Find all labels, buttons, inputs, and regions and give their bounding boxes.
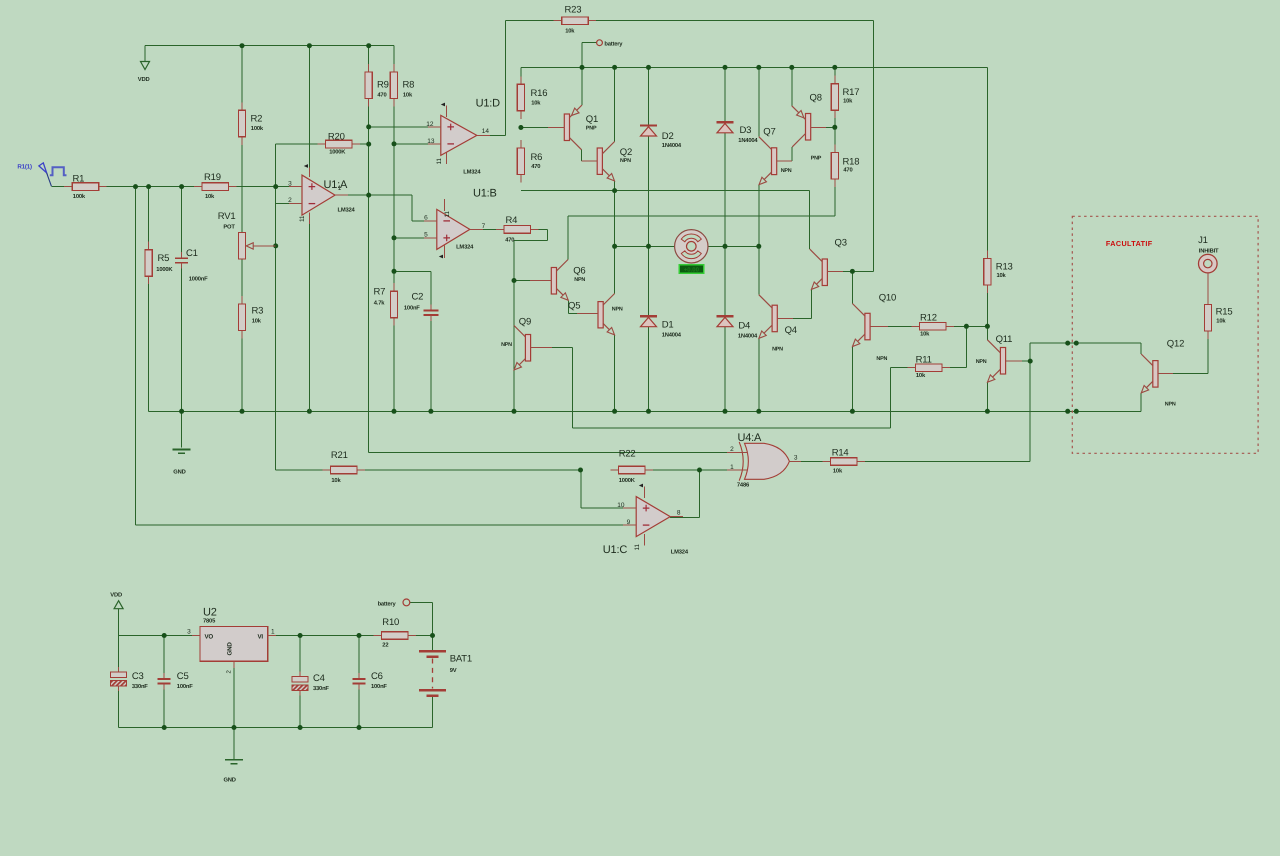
svg-text:LM324: LM324 [671, 549, 689, 556]
svg-text:2: 2 [730, 446, 734, 453]
svg-text:C1: C1 [186, 248, 198, 259]
wire VDD stub bottom block [118, 609, 120, 636]
wire U1:B pin5 [394, 237, 437, 239]
svg-text:R2: R2 [251, 114, 263, 125]
resistor R22 [611, 469, 619, 471]
svg-text:FACULTATIF: FACULTATIF [1106, 239, 1153, 248]
wire R18 to Q6 collector line [568, 215, 835, 217]
connector battery bottom [403, 599, 410, 606]
wire Q6 base [514, 280, 548, 282]
transistor Q7 NPN mirrored [772, 148, 777, 175]
svg-text:D2: D2 [662, 131, 674, 142]
svg-text:LM324: LM324 [456, 244, 474, 251]
wire R10 to battery [408, 635, 433, 637]
svg-text:1N4004: 1N4004 [738, 137, 758, 144]
svg-text:C3: C3 [132, 671, 144, 682]
wire Q3 base net [831, 270, 874, 272]
svg-text:7805: 7805 [203, 617, 216, 624]
wire C4 column [299, 636, 301, 677]
svg-text:J1: J1 [1198, 235, 1208, 246]
svg-text:5: 5 [424, 232, 428, 239]
junction dot R16 R6 [518, 125, 523, 130]
svg-text:GND: GND [226, 642, 233, 656]
diode D4 [717, 315, 734, 317]
svg-text:R18: R18 [843, 157, 860, 168]
svg-text:BAT1: BAT1 [450, 654, 472, 665]
svg-text:R16: R16 [531, 88, 548, 99]
svg-text:PNP: PNP [586, 126, 597, 132]
wire XOR output to R14 [789, 461, 830, 463]
power flag VDD top [141, 62, 150, 70]
wire U1:C output [670, 516, 699, 518]
resistor R8 [393, 64, 395, 72]
resistor R3 [241, 296, 243, 304]
wire supply bottom line [118, 686, 120, 727]
svg-text:470: 470 [377, 91, 386, 98]
resistor R13 [986, 251, 988, 259]
svg-text:D3: D3 [740, 125, 752, 136]
wire R2 RV1 R3 column [241, 137, 243, 233]
svg-text:U1:D: U1:D [476, 98, 501, 110]
svg-text:LM324: LM324 [463, 169, 481, 176]
svg-text:10k: 10k [916, 372, 926, 379]
wire Q6 emitter to Q5 base [567, 300, 569, 313]
svg-text:11: 11 [634, 544, 641, 551]
capacitor C5 [163, 673, 165, 679]
svg-text:NPN: NPN [1165, 401, 1176, 407]
svg-text:9V: 9V [450, 667, 457, 674]
transistor Q1 PNP [564, 114, 569, 141]
capacitor C1 [181, 252, 183, 258]
svg-text:Q10: Q10 [879, 293, 896, 304]
svg-text:R22: R22 [619, 449, 636, 460]
svg-text:1000K: 1000K [619, 477, 636, 484]
resistor R20 [318, 143, 326, 145]
resistor R4 [496, 228, 504, 230]
svg-text:NPN: NPN [876, 356, 887, 362]
svg-text:10k: 10k [403, 91, 413, 98]
wire C6 column [358, 636, 360, 680]
wire C1 branch [181, 187, 183, 259]
svg-text:7: 7 [482, 223, 486, 230]
svg-text:R8: R8 [403, 80, 415, 91]
ground symbol middle [173, 449, 191, 451]
wire Q11 base net to Q12 collector [1008, 360, 1030, 362]
svg-text:10k: 10k [843, 98, 853, 105]
connector J1 INHIBIT [1199, 254, 1218, 273]
wire R11 left [890, 367, 915, 369]
wire bottom ground rail [149, 410, 1142, 412]
junction dots VDD rail [240, 43, 245, 48]
transistor Q3 NPN mirrored [822, 259, 827, 286]
resistor R6 [520, 140, 522, 148]
junction dots battery rail [580, 65, 585, 70]
svg-text:4.7k: 4.7k [374, 300, 385, 307]
svg-text:100k: 100k [73, 193, 86, 200]
svg-text:Q12: Q12 [1167, 339, 1184, 350]
junction dots ground rail [179, 409, 184, 414]
wire Q7 emitter stub [758, 185, 760, 247]
svg-text:R9: R9 [377, 80, 389, 91]
svg-text:R21: R21 [331, 450, 348, 461]
svg-text:R10: R10 [382, 617, 399, 628]
xor gate U4:A 7486 [745, 443, 790, 479]
svg-text:D1: D1 [662, 320, 674, 331]
svg-text:100nF: 100nF [404, 304, 420, 311]
svg-text:10k: 10k [331, 477, 341, 484]
svg-text:14: 14 [482, 128, 490, 135]
junction dots R8 column [392, 141, 397, 146]
resistor R1 [64, 186, 72, 188]
svg-text:R5: R5 [158, 253, 170, 264]
resistor R11 [907, 367, 915, 369]
resistor R23 [554, 20, 562, 22]
svg-text:R19: R19 [204, 172, 221, 183]
wire U2 input line [268, 635, 382, 637]
resistor R21 [322, 469, 330, 471]
diode D2 [640, 124, 657, 126]
wire R14 to Q11 base [857, 461, 1030, 463]
svg-text:INHIBIT: INHIBIT [1199, 248, 1219, 254]
wire input to U1:C pin9 [135, 187, 137, 525]
svg-text:22: 22 [382, 641, 388, 648]
wire Q11 collector emitter stubs [986, 326, 988, 340]
svg-text:1000nF: 1000nF [189, 276, 208, 283]
resistor R12 [912, 325, 920, 327]
junction dots input line [133, 184, 138, 189]
svg-text:Q9: Q9 [519, 317, 531, 328]
junction dots R12 R13 [964, 324, 969, 329]
svg-text:470: 470 [843, 167, 852, 174]
wire Q12 base to R15 [1161, 373, 1208, 375]
svg-text:10k: 10k [833, 468, 843, 475]
connector battery top [597, 40, 603, 46]
transistor Q10 NPN mirrored [865, 313, 870, 340]
wire Q3 emitter to Q4 base [810, 290, 812, 319]
resistor R15 [1207, 297, 1209, 305]
junction dot Q2 emitter [612, 188, 617, 193]
wire U1:D pin13 [394, 143, 441, 145]
wire R8 R7 column [393, 97, 395, 144]
svg-text:C4: C4 [313, 673, 325, 684]
svg-text:NPN: NPN [501, 342, 512, 348]
junction dots output column [366, 124, 371, 129]
diode D3 [717, 121, 734, 123]
svg-text:LM324: LM324 [338, 207, 356, 214]
svg-text:1000K: 1000K [156, 266, 173, 273]
wire Q9 base loop to R11 [534, 347, 573, 349]
wire R13 bottom [986, 285, 988, 326]
svg-text:10: 10 [617, 502, 625, 509]
svg-text:Q2: Q2 [620, 147, 632, 158]
capacitor C3 electrolytic [118, 667, 120, 672]
wire R20 feedback column [275, 144, 277, 470]
wire R5 branch [148, 187, 150, 250]
op-amp U1:B LM324 [437, 209, 470, 249]
svg-text:NPN: NPN [781, 168, 792, 174]
junction dot Q11 base [1028, 359, 1033, 364]
svg-text:1N4004: 1N4004 [662, 331, 682, 338]
transistor Q2 NPN [597, 148, 602, 174]
svg-text:R11: R11 [916, 354, 932, 365]
svg-text:U4:A: U4:A [738, 432, 763, 444]
svg-text:C2: C2 [412, 292, 424, 303]
wire U2 ground pin [233, 661, 235, 727]
regulator U2 7805 [200, 627, 268, 662]
motor speed display [679, 265, 703, 274]
svg-text:R7: R7 [374, 286, 386, 297]
svg-text:Q7: Q7 [763, 127, 775, 138]
svg-text:VO: VO [205, 634, 214, 641]
svg-text:Q6: Q6 [573, 266, 585, 277]
wire Q7 base from Q8 collector [780, 160, 792, 162]
wire D3 D4 column [724, 133, 726, 247]
svg-text:10k: 10k [920, 331, 930, 338]
svg-text:3: 3 [187, 629, 191, 636]
op-amp U1:C LM324 [636, 497, 670, 537]
resistor R2 [241, 102, 243, 110]
wire R6 bottom line to Q3 [521, 190, 810, 192]
svg-text:battery: battery [604, 40, 623, 47]
svg-text:NPN: NPN [612, 306, 623, 312]
junction dot Q8 collector [832, 125, 837, 130]
transistor Q6 NPN [551, 268, 556, 295]
svg-text:11: 11 [436, 158, 443, 165]
wire Q12 emitter stub [1140, 393, 1142, 411]
resistor R14 [823, 461, 831, 463]
op-amp U1:A LM324 [302, 175, 335, 215]
svg-text:Q5: Q5 [568, 301, 580, 312]
transistor Q5 NPN [598, 302, 603, 328]
svg-text:7486: 7486 [737, 482, 750, 489]
wire U1:A output net [335, 194, 412, 196]
wire Q6 collector to line [567, 216, 569, 259]
svg-text:NPN: NPN [620, 158, 631, 164]
wire Q1 base [521, 127, 549, 129]
wire battery rail [521, 66, 988, 68]
transistor Q4 NPN mirrored [772, 305, 777, 332]
svg-text:C6: C6 [371, 671, 383, 682]
potentiometer RV1 [241, 232, 243, 234]
svg-text:POT: POT [223, 224, 235, 231]
svg-text:100k: 100k [251, 125, 264, 132]
wire U1:C feedback [580, 470, 582, 508]
svg-text:R3: R3 [252, 306, 264, 317]
svg-text:10k: 10k [531, 100, 541, 107]
wire Q1 emitter stub [581, 67, 583, 105]
svg-text:NPN: NPN [772, 347, 783, 353]
wire Q1 collector to Q2 base [581, 150, 583, 162]
svg-text:R12: R12 [920, 313, 937, 324]
svg-text:Q11: Q11 [996, 334, 1013, 345]
svg-text:Q1: Q1 [586, 114, 598, 125]
wire VDD rail top [145, 45, 394, 47]
svg-text:R20: R20 [328, 132, 345, 143]
svg-text:1: 1 [271, 629, 275, 636]
svg-text:12: 12 [426, 121, 434, 128]
svg-text:U1:B: U1:B [473, 188, 497, 200]
svg-text:1N4004: 1N4004 [738, 332, 758, 339]
wire input node line [51, 186, 202, 188]
svg-text:1N4004: 1N4004 [662, 142, 682, 149]
wire R12 to R11 link [965, 326, 967, 367]
wire BAT1 column [432, 636, 434, 652]
transistor Q8 PNP mirrored [806, 114, 811, 141]
junction dot Q6 base [512, 278, 517, 283]
resistor R5 [148, 242, 150, 250]
svg-text:1000K: 1000K [329, 148, 346, 155]
svg-text:8: 8 [677, 509, 681, 516]
svg-text:PNP: PNP [811, 155, 822, 161]
junction dot Q3 base [850, 269, 855, 274]
battery BAT1 [419, 650, 446, 653]
svg-text:Q8: Q8 [810, 93, 822, 104]
resistor R19 [194, 186, 202, 188]
wire motor line [615, 245, 675, 247]
svg-text:U1:C: U1:C [603, 544, 628, 556]
resistor R10 [374, 635, 382, 637]
junction dot RV1 wiper [273, 243, 278, 248]
wire C5 column [163, 636, 165, 680]
svg-text:100nF: 100nF [371, 683, 387, 690]
wire U1:B output to R4 [471, 228, 504, 230]
svg-text:330nF: 330nF [132, 683, 148, 690]
resistor R16 [520, 76, 522, 84]
svg-text:R15: R15 [1216, 307, 1233, 318]
svg-text:10k: 10k [1216, 318, 1226, 325]
svg-text:battery: battery [378, 600, 397, 607]
svg-text:100nF: 100nF [177, 683, 193, 690]
svg-text:VDD: VDD [138, 77, 150, 83]
svg-text:11: 11 [444, 211, 451, 218]
svg-text:6: 6 [424, 215, 428, 222]
wire Q8 collector column R17 R18 [834, 110, 836, 153]
svg-text:U1:A: U1:A [324, 179, 349, 191]
svg-text:NPN: NPN [574, 277, 585, 283]
svg-text:VI: VI [258, 634, 264, 641]
junction dots inhibit lines [1065, 341, 1070, 346]
svg-text:330nF: 330nF [313, 685, 329, 692]
op-amp U1:D LM324 [441, 115, 477, 155]
svg-text:1: 1 [730, 464, 734, 471]
svg-text:R1: R1 [73, 174, 85, 185]
svg-text:R13: R13 [996, 262, 1013, 273]
svg-text:+0.00: +0.00 [684, 267, 700, 274]
wire R21 R22 line [275, 411, 277, 470]
power flag VDD bottom [114, 601, 123, 609]
wire R23 line [506, 20, 562, 22]
svg-text:C5: C5 [177, 671, 189, 682]
junction dots supply bottom line [162, 725, 167, 730]
svg-text:2: 2 [288, 197, 292, 204]
svg-text:RV1: RV1 [218, 211, 236, 222]
svg-text:GND: GND [173, 469, 185, 476]
resistor R17 [834, 76, 836, 84]
wire R12 right to R13 node [946, 325, 987, 327]
svg-text:R1(1): R1(1) [17, 164, 32, 171]
wire C2 branch [394, 270, 431, 272]
wire RV1 wiper [253, 245, 276, 247]
svg-text:VDD: VDD [110, 593, 122, 599]
svg-text:10k: 10k [252, 317, 262, 324]
svg-text:10k: 10k [565, 27, 575, 34]
capacitor C4 electrolytic [299, 671, 301, 676]
svg-text:11: 11 [299, 215, 306, 222]
svg-text:R14: R14 [832, 447, 849, 458]
wire Q4 collector stub [758, 246, 760, 294]
resistor R7 [393, 283, 395, 291]
svg-text:NPN: NPN [976, 359, 987, 365]
transistor Q11 NPN mirrored [1000, 348, 1005, 375]
motor [675, 230, 708, 263]
capacitor C2 [430, 305, 432, 311]
svg-text:470: 470 [505, 236, 514, 243]
wire D2 D1 column [648, 136, 650, 247]
wire Q10 base to R12 [873, 325, 919, 327]
svg-text:9: 9 [627, 519, 631, 526]
svg-text:10k: 10k [205, 193, 215, 200]
svg-text:13: 13 [427, 138, 435, 145]
diode D1 [640, 315, 657, 317]
svg-text:Q3: Q3 [835, 238, 847, 249]
ground symbol bottom [225, 759, 243, 761]
wire J1 to R15 [1207, 273, 1209, 304]
svg-text:3: 3 [794, 454, 798, 461]
svg-text:R17: R17 [843, 87, 860, 98]
svg-text:R23: R23 [565, 5, 582, 16]
svg-text:D4: D4 [738, 321, 750, 332]
wire Q2 emitter down to motor [614, 181, 616, 191]
junction dots R21 R22 line [578, 468, 583, 473]
svg-text:R6: R6 [531, 152, 543, 163]
svg-text:470: 470 [531, 163, 540, 170]
svg-text:R4: R4 [506, 215, 518, 226]
facultatif dashed box [1072, 216, 1258, 453]
wire supply output line [119, 635, 201, 637]
svg-text:Q4: Q4 [785, 325, 797, 336]
resistor R18 [834, 145, 836, 153]
junction dots motor line [612, 244, 617, 249]
resistor R9 [368, 64, 370, 72]
svg-text:3: 3 [288, 180, 292, 187]
svg-text:GND: GND [224, 777, 236, 784]
wire U1:D pin12 [369, 126, 441, 128]
capacitor C6 [358, 673, 360, 679]
svg-text:10k: 10k [997, 272, 1007, 279]
wire Q10 collector stub [851, 271, 853, 303]
wire R4 to Q6 base column [531, 228, 548, 230]
junction dots supply top line [162, 633, 167, 638]
wire Q5 collector emitter stubs [614, 246, 616, 293]
transistor Q12 NPN mirrored [1153, 361, 1158, 388]
transistor Q9 NPN mirrored [525, 335, 530, 362]
wire Q10 emitter stub [851, 347, 853, 412]
svg-text:U2: U2 [203, 607, 217, 619]
